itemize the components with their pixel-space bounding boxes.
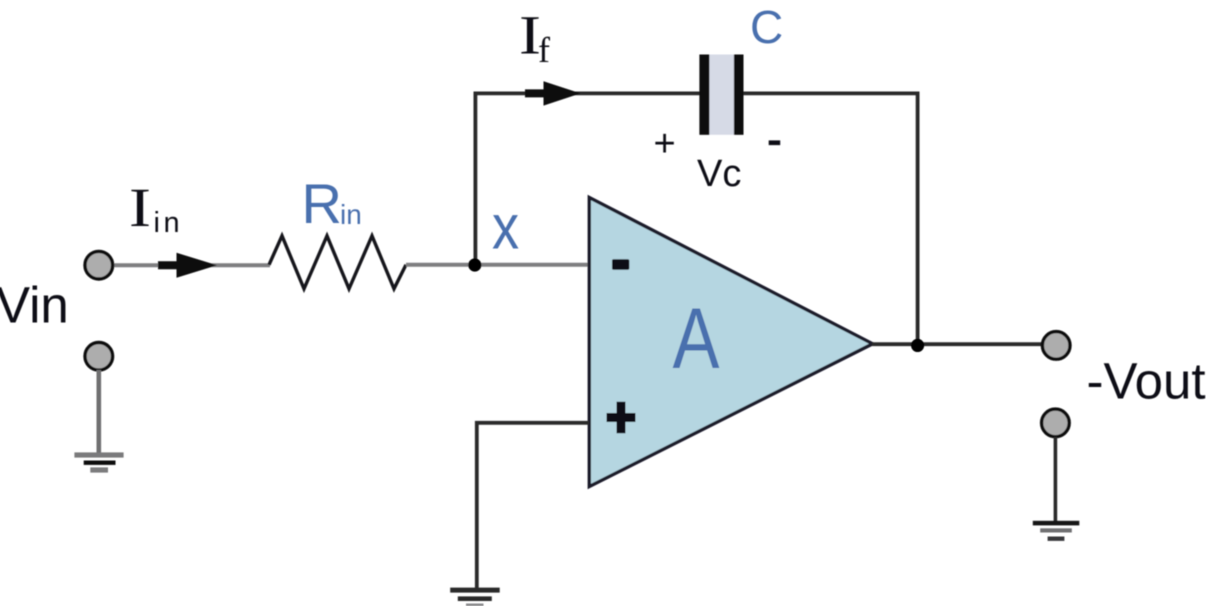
ground (Vin) bar 1: [74, 452, 123, 457]
wire arrow tail Iin: [158, 261, 182, 269]
ground (output) bar 2: [1040, 528, 1072, 532]
ground (Vin) bar 2: [84, 461, 116, 465]
svg-text:x: x: [492, 193, 519, 263]
ground (output) bar 3: [1048, 537, 1065, 541]
svg-text:f: f: [538, 30, 550, 70]
op-amp non-inverting input plus sign: [607, 402, 636, 433]
Vin reference terminal: [85, 343, 113, 371]
wire Vin reference terminal to ground: [97, 370, 102, 454]
svg-text:I: I: [129, 178, 151, 239]
svg-text:R: R: [302, 172, 342, 235]
wire output reference terminal to ground: [1054, 437, 1058, 522]
arrowhead If feedback current: [544, 81, 581, 105]
svg-text:C: C: [750, 1, 783, 53]
output junction dot: [911, 339, 924, 352]
capacitor C left plate: [699, 55, 709, 135]
op-amp inverting input minus sign: [612, 259, 629, 269]
svg-text:in: in: [340, 199, 362, 230]
resistor R1 (Rin) zigzag: [269, 236, 406, 289]
ground (non-inverting input) bar 2: [458, 596, 492, 601]
wire op-amp output to -Vout terminal: [872, 342, 1043, 346]
wire capacitor right plate to output branch, down to output node: [744, 93, 918, 345]
label capacitor minus polarity: [769, 140, 781, 145]
svg-text:Vc: Vc: [697, 153, 741, 195]
svg-text:-Vout: -Vout: [1087, 352, 1206, 409]
ground (Vin) bar 3: [90, 467, 108, 472]
capacitor C right plate: [734, 55, 744, 135]
capacitor C dielectric fill: [708, 55, 735, 135]
input terminal Vin: [85, 251, 113, 279]
svg-text:Vin: Vin: [0, 276, 69, 333]
ground (non-inverting input) bar 3: [466, 604, 484, 606]
svg-text:A: A: [673, 290, 721, 386]
arrowhead Iin current direction: [177, 253, 218, 278]
op-amp U1 triangle body: [589, 198, 872, 487]
output terminal -Vout: [1042, 332, 1070, 360]
wire resistor to op-amp inverting input: [406, 263, 589, 267]
svg-text:+: +: [654, 123, 676, 165]
wire input from Vin terminal to resistor: [113, 263, 271, 267]
output reference terminal: [1042, 409, 1070, 437]
wire non-inverting input to ground: [477, 423, 590, 591]
ground (non-inverting input) bar 1: [450, 588, 500, 593]
ground (output) bar 1: [1033, 521, 1080, 526]
node x junction dot: [468, 258, 481, 271]
wire arrow tail If: [525, 89, 549, 97]
wire node x up and across to capacitor left plate: [475, 93, 699, 264]
svg-text:in: in: [154, 207, 184, 239]
